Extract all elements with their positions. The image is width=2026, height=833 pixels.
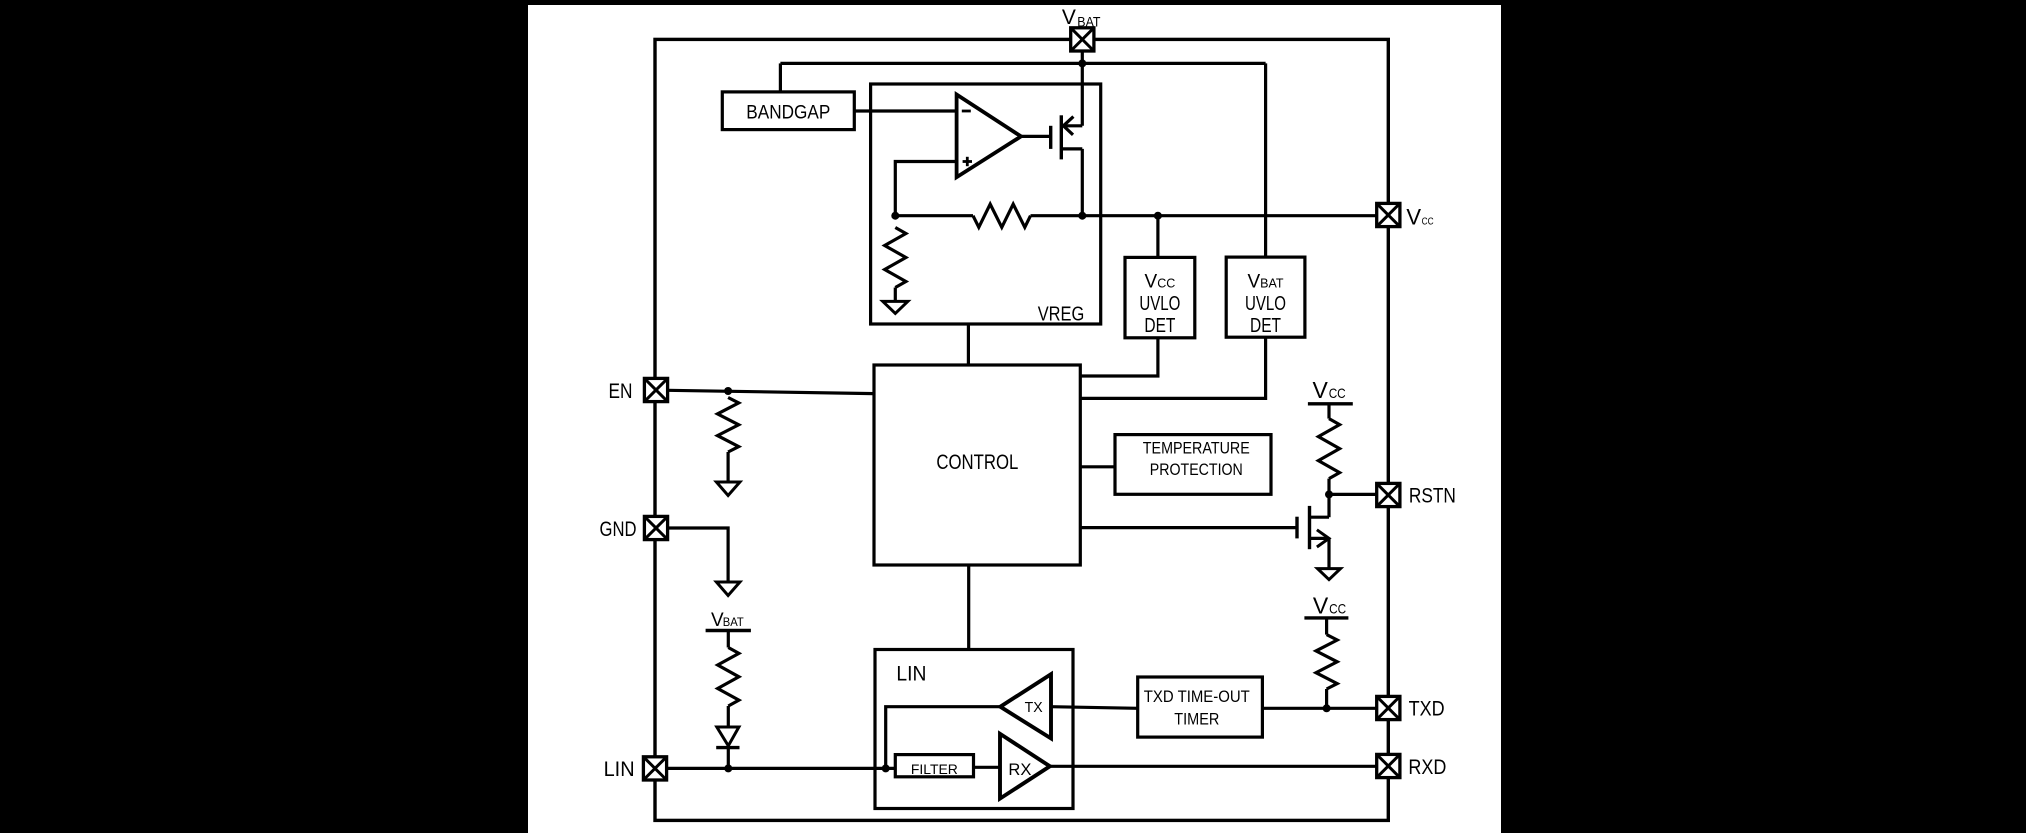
- ground Q2 source: [1318, 569, 1341, 580]
- svg-text:BANDGAP: BANDGAP: [746, 103, 830, 124]
- resistor R6 (TXD pull-up): [1316, 635, 1337, 689]
- node TX feedback on LIN line: [882, 764, 890, 772]
- label TXD TIME-OUT TIMER: [1144, 688, 1250, 729]
- supply VCC (TXD pull-up): [1304, 593, 1348, 635]
- node VBAT rail junction: [1078, 59, 1086, 67]
- block LIN box: [875, 650, 1073, 809]
- svg-text:RXD: RXD: [1408, 756, 1446, 779]
- node EN pulldown tap: [724, 387, 732, 395]
- wire RX to RXD pin: [1050, 765, 1377, 768]
- svg-text:CC: CC: [1422, 215, 1434, 227]
- node VCC UVLO tap: [1154, 212, 1162, 220]
- wire BANDGAP to op-amp inverting input: [854, 109, 958, 112]
- supply VCC (RSTN pull-up): [1308, 377, 1353, 419]
- block TXD TIME-OUT TIMER box: [1138, 677, 1263, 737]
- block VREG box: [871, 84, 1101, 324]
- svg-text:DET: DET: [1250, 315, 1281, 337]
- block TEMPERATURE PROTECTION box: [1115, 435, 1271, 495]
- pin TXD: [1377, 696, 1400, 719]
- wire RSTN junction to RSTN pin: [1329, 493, 1377, 496]
- label VREG: [1038, 303, 1085, 325]
- label VBAT UVLO DET: [1245, 272, 1286, 337]
- wire TX output feedback to LIN line: [886, 707, 1001, 769]
- block CONTROL box: [874, 365, 1080, 565]
- wire FILTER to RX: [974, 766, 1001, 769]
- pin EN: [644, 378, 667, 401]
- wire LIN pin to FILTER: [667, 767, 896, 770]
- transistor Q2 (RSTN open-drain NMOS): [1297, 494, 1329, 568]
- wire R5 to RSTN line: [1327, 479, 1330, 495]
- block VCC UVLO DET box: [1125, 257, 1195, 337]
- resistor R2 (feedback top): [973, 204, 1031, 227]
- svg-text:CONTROL: CONTROL: [936, 450, 1018, 474]
- node Q1 drain on VCC rail: [1078, 212, 1086, 220]
- label LIN pin: [604, 758, 635, 781]
- diode D1 (LIN pull-up): [716, 727, 739, 748]
- wire rail to VBAT UVLO DET: [1264, 63, 1267, 257]
- resistor R5 (RSTN pull-up): [1318, 419, 1339, 479]
- svg-text:CC: CC: [1329, 601, 1346, 617]
- wire TIMER to TXD pin: [1262, 707, 1376, 710]
- svg-text:TXD: TXD: [1409, 698, 1445, 721]
- wire VBAT UVLO DET to CONTROL: [1080, 337, 1265, 398]
- resistor R4 (LIN pull-up): [718, 648, 739, 707]
- node RSTN junction: [1325, 490, 1333, 498]
- wire R1 to ground: [894, 288, 897, 302]
- wire CONTROL to LIN block: [967, 565, 970, 650]
- wire GND pin elbow: [668, 528, 729, 582]
- svg-text:UVLO: UVLO: [1245, 293, 1286, 315]
- wire EN pin to CONTROL: [668, 390, 875, 393]
- pin VCC: [1377, 203, 1400, 226]
- svg-text:GND: GND: [600, 518, 637, 541]
- ground EN pulldown arrow: [716, 482, 740, 496]
- wire R6 to TXD line: [1325, 689, 1328, 708]
- block FILTER box: [895, 755, 973, 777]
- label GND pin: [600, 518, 637, 541]
- pin RXD: [1377, 754, 1400, 777]
- wire VBAT pin to VBAT rail: [1081, 51, 1084, 126]
- svg-text:V: V: [1406, 204, 1421, 229]
- svg-text:DET: DET: [1144, 315, 1175, 337]
- wire op-amp + input elbow: [895, 162, 958, 216]
- buffer TX (transmitter, points left): [1000, 674, 1051, 738]
- wire D1 to LIN line: [727, 748, 730, 769]
- op-amp U1 (error amplifier): [957, 95, 1021, 178]
- svg-text:TIMER: TIMER: [1174, 711, 1219, 729]
- wire VCC rail to VCC pin: [1031, 214, 1377, 217]
- IC boundary box: [655, 39, 1388, 820]
- wire R3 to arrow: [726, 452, 729, 482]
- label EN pin: [609, 380, 633, 403]
- label VCC UVLO DET: [1139, 272, 1180, 337]
- block VBAT UVLO DET box: [1226, 257, 1305, 337]
- label CONTROL: [936, 450, 1018, 474]
- svg-text:PROTECTION: PROTECTION: [1150, 461, 1243, 479]
- node R6 on TXD line: [1323, 704, 1331, 712]
- label RXD pin: [1408, 756, 1446, 779]
- wire op-amp output to Q1 gate: [1021, 135, 1051, 138]
- pin RSTN: [1377, 483, 1400, 506]
- svg-text:TX: TX: [1025, 700, 1043, 716]
- svg-text:BAT: BAT: [723, 617, 744, 629]
- wire VREG to CONTROL: [967, 324, 970, 365]
- svg-text:EN: EN: [609, 380, 633, 403]
- resistor R3 (EN pulldown): [718, 398, 739, 453]
- label BANDGAP: [746, 103, 830, 124]
- wire Q1 source down to VCC rail: [1081, 149, 1084, 216]
- svg-text:FILTER: FILTER: [911, 761, 958, 777]
- svg-text:V: V: [1062, 6, 1076, 29]
- node feedback left: [891, 212, 899, 220]
- supply VBAT (LIN pull-up): [706, 610, 751, 648]
- ground VREG divider: [883, 301, 908, 313]
- pin VBAT: [1071, 28, 1094, 51]
- svg-text:V: V: [1313, 377, 1329, 403]
- ground GND arrow: [716, 582, 740, 596]
- wire CONTROL to TEMPERATURE PROTECTION: [1080, 465, 1115, 468]
- svg-text:V: V: [1313, 593, 1329, 619]
- wire rail to BANDGAP top: [779, 63, 782, 92]
- label TEMPERATURE PROTECTION: [1143, 439, 1250, 479]
- wire TX to TXD TIME-OUT TIMER: [1051, 707, 1138, 709]
- node D1 on LIN line: [724, 764, 732, 772]
- svg-text:LIN: LIN: [896, 661, 926, 685]
- transistor Q1 (VREG pass PMOS): [1051, 115, 1083, 159]
- label FILTER: [911, 761, 958, 777]
- wire VCC rail left segment: [895, 214, 973, 217]
- svg-text:LIN: LIN: [604, 758, 635, 781]
- wire VBAT horizontal rail: [780, 62, 1265, 65]
- pin GND: [644, 516, 667, 539]
- svg-text:RSTN: RSTN: [1409, 485, 1456, 508]
- resistor R1 (feedback bottom): [885, 228, 906, 288]
- block BANDGAP box: [722, 92, 854, 130]
- label LIN block: [896, 661, 926, 685]
- label VCC pin: [1406, 204, 1434, 229]
- svg-text:BAT: BAT: [1077, 15, 1100, 30]
- label TXD pin: [1409, 698, 1445, 721]
- label RSTN pin: [1409, 485, 1456, 508]
- svg-text:UVLO: UVLO: [1139, 293, 1180, 315]
- wire R4 to diode D1: [727, 706, 730, 727]
- svg-text:CC: CC: [1329, 385, 1346, 401]
- svg-text:TEMPERATURE: TEMPERATURE: [1143, 439, 1250, 457]
- svg-text:VREG: VREG: [1038, 303, 1085, 325]
- label VBAT pin: [1062, 6, 1101, 30]
- buffer RX (receiver, points right): [1000, 734, 1050, 799]
- wire VCC UVLO DET to CONTROL: [1080, 338, 1158, 376]
- wire CONTROL to Q2 gate: [1080, 526, 1297, 529]
- svg-text:RX: RX: [1008, 760, 1031, 779]
- wire VCC rail to VCC UVLO DET: [1156, 216, 1159, 258]
- pin LIN: [643, 757, 666, 780]
- svg-text:TXD TIME-OUT: TXD TIME-OUT: [1144, 688, 1250, 706]
